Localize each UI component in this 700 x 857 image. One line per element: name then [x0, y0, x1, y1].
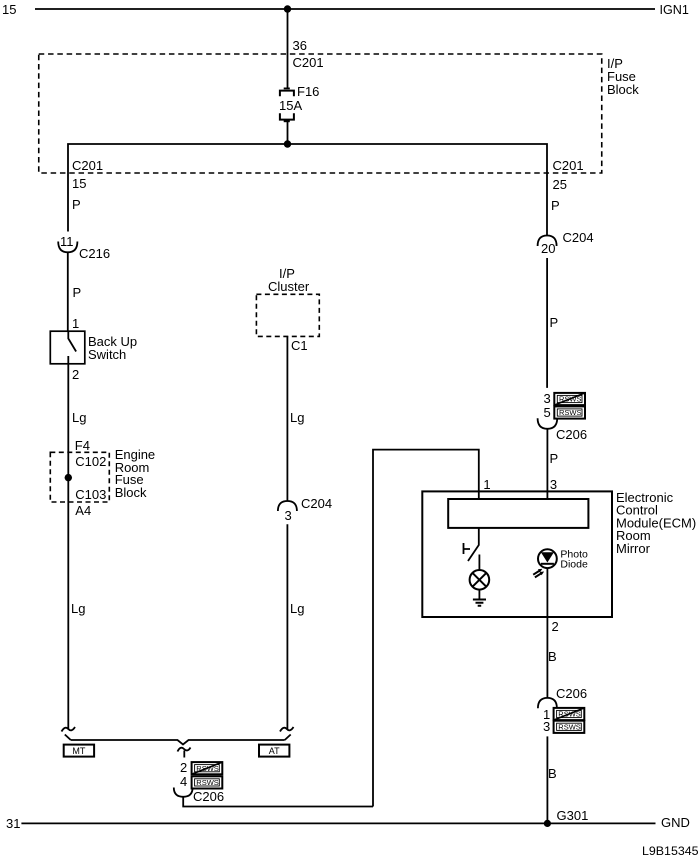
wire lower feed bus — [68, 144, 547, 235]
connector C206 (1/3) arc — [538, 698, 557, 708]
svg-text:1: 1 — [483, 477, 490, 492]
connector C204 (20) arc — [538, 236, 557, 247]
switch inside ECM — [464, 528, 480, 570]
svg-text:4: 4 — [180, 774, 187, 789]
svg-text:15: 15 — [72, 176, 86, 191]
svg-text:3: 3 — [285, 508, 292, 523]
connector C206 (3/5) arc — [538, 418, 558, 429]
wire C216 to switch — [67, 252, 69, 331]
AT box — [259, 745, 289, 757]
ECM box — [422, 491, 612, 617]
lamp — [470, 570, 490, 590]
badge RSWS (pin5) — [554, 406, 585, 418]
svg-text:11: 11 — [60, 234, 74, 249]
wire left tilde break — [62, 727, 76, 732]
wire C204 to C206 — [546, 258, 548, 388]
photo diode D1 — [538, 549, 557, 568]
svg-text:B: B — [548, 649, 557, 664]
I/P fuse block dashed box — [39, 54, 602, 173]
wire fuse to lower bus — [287, 120, 289, 144]
node top junction — [284, 5, 291, 12]
I/P cluster dashed box — [256, 294, 319, 336]
svg-text:5: 5 — [544, 405, 551, 420]
wire top IGN1 bus — [35, 8, 655, 10]
svg-text:P: P — [72, 197, 81, 212]
svg-text:2: 2 — [552, 619, 559, 634]
svg-text:Lg: Lg — [72, 410, 86, 425]
fuse F16 — [284, 87, 290, 89]
svg-text:20: 20 — [541, 241, 555, 256]
connector C216 — [58, 242, 77, 253]
svg-text:3: 3 — [544, 391, 551, 406]
svg-text:MT: MT — [72, 746, 85, 756]
svg-text:C201: C201 — [72, 158, 103, 173]
connector middle squiggle — [178, 748, 191, 758]
svg-text:Lg: Lg — [290, 410, 304, 425]
svg-text:2: 2 — [180, 760, 187, 775]
back up switch blade — [68, 331, 76, 364]
wire junction to fuse F16 — [287, 9, 289, 88]
svg-text:F4: F4 — [75, 438, 90, 453]
back up switch SW box — [50, 331, 85, 364]
wire C204 to tilde — [286, 524, 288, 729]
ECM inner block — [448, 499, 588, 528]
svg-text:L9B15345: L9B15345 — [642, 844, 699, 857]
MT box — [64, 745, 94, 757]
node bus junction — [284, 140, 291, 147]
svg-text:C206: C206 — [193, 789, 224, 804]
ground — [473, 600, 486, 606]
svg-text:Block: Block — [115, 485, 147, 500]
svg-text:C204: C204 — [563, 230, 594, 245]
svg-text:C206: C206 — [556, 686, 587, 701]
wire ground bus GND — [21, 822, 655, 824]
wire C206 down and right — [183, 797, 373, 807]
svg-text:1: 1 — [72, 316, 79, 331]
svg-text:2: 2 — [72, 367, 79, 382]
connector C204 (3) arc — [278, 501, 297, 511]
svg-text:P: P — [550, 451, 559, 466]
wire C206 to ECM pin3 — [546, 429, 548, 499]
svg-text:P: P — [550, 315, 559, 330]
wire MT/AT bus with center notch — [71, 740, 285, 745]
svg-text:C201: C201 — [293, 55, 324, 70]
svg-text:P: P — [73, 285, 82, 300]
svg-text:C206: C206 — [556, 427, 587, 442]
svg-text:Diode: Diode — [560, 559, 588, 571]
badge RSWS slashed (pin3) — [554, 393, 585, 405]
svg-text:F16: F16 — [297, 84, 319, 99]
node G301 — [544, 820, 551, 827]
engine room fuse block dashed box — [50, 452, 109, 502]
photo diode light arrows — [533, 571, 541, 578]
svg-text:RSWS: RSWS — [558, 723, 581, 732]
svg-text:C216: C216 — [79, 246, 110, 261]
connector C206 arc (2/4) — [174, 788, 193, 797]
wire long Lg loop to ECM pin1 — [373, 450, 479, 807]
svg-text:31: 31 — [6, 816, 20, 831]
svg-text:15: 15 — [2, 2, 16, 17]
svg-text:RSWS: RSWS — [196, 778, 219, 787]
svg-text:B: B — [548, 766, 557, 781]
wire lamp to ground — [478, 590, 480, 599]
badge RSWS (pin3 lower) — [554, 721, 585, 733]
svg-text:Block: Block — [607, 82, 639, 97]
svg-text:G301: G301 — [557, 808, 589, 823]
svg-text:3: 3 — [543, 719, 550, 734]
svg-text:25: 25 — [553, 177, 567, 192]
badge RSWS (pin4 mid) — [192, 776, 223, 788]
svg-text:C103: C103 — [75, 487, 106, 502]
svg-text:A4: A4 — [75, 503, 91, 518]
svg-text:Lg: Lg — [290, 601, 304, 616]
svg-text:IGN1: IGN1 — [660, 3, 689, 17]
svg-text:Mirror: Mirror — [616, 541, 651, 556]
wire right tilde break — [280, 727, 294, 732]
badge RSWS slashed (pin1) — [554, 708, 585, 720]
wire pin2 to C206 — [546, 617, 548, 698]
wire switch to fuse block — [67, 364, 69, 453]
wire cluster to C204 — [286, 336, 288, 501]
badge RSWS slashed (pin2 mid) — [192, 762, 223, 774]
svg-text:Cluster: Cluster — [268, 279, 310, 294]
wire through fuse block — [67, 452, 69, 729]
svg-text:P: P — [551, 198, 560, 213]
svg-text:15A: 15A — [279, 98, 302, 113]
wire left diagonal to MT/AT bus — [65, 735, 71, 741]
svg-text:AT: AT — [269, 746, 280, 756]
svg-text:C1: C1 — [291, 338, 308, 353]
svg-text:Switch: Switch — [88, 347, 126, 362]
svg-text:C201: C201 — [553, 158, 584, 173]
svg-text:RSWS: RSWS — [559, 408, 582, 417]
svg-text:C102: C102 — [75, 454, 106, 469]
node C102/C103 junction — [65, 474, 72, 481]
svg-text:C204: C204 — [301, 496, 332, 511]
svg-text:Lg: Lg — [71, 601, 85, 616]
svg-text:3: 3 — [550, 477, 557, 492]
wire C206 to G301 — [546, 736, 548, 823]
svg-text:GND: GND — [661, 815, 690, 830]
svg-text:36: 36 — [293, 38, 307, 53]
wire right diagonal — [285, 735, 291, 741]
wire photodiode to pin2 — [546, 568, 548, 617]
